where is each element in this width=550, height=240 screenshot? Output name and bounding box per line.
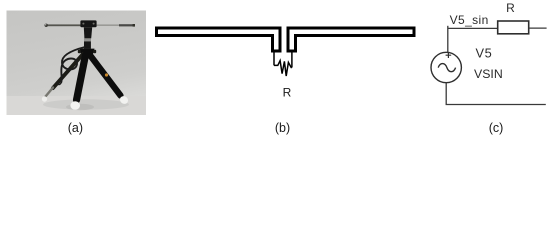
- coiled cable: [61, 47, 85, 83]
- dipole left arm: [157, 28, 281, 51]
- sine symbol: [438, 64, 455, 72]
- centre front leg: [77, 55, 86, 100]
- orange marking on right leg: [105, 73, 108, 76]
- rod tips: [45, 24, 48, 27]
- svg-text:V5: V5: [476, 46, 493, 61]
- tripod hub: [80, 49, 95, 55]
- wire: left feed drop: [273, 52, 275, 65]
- svg-text:V5_sin: V5_sin: [450, 13, 489, 27]
- antenna rod left half: [46, 24, 81, 26]
- svg-text:R: R: [283, 86, 292, 100]
- resistor R (box): [498, 21, 529, 34]
- grey adjuster ring: [84, 38, 91, 41]
- column: [84, 41, 91, 48]
- plus sign: [446, 52, 452, 58]
- svg-text:R: R: [506, 1, 515, 15]
- voltage source V5 circle: [431, 52, 461, 82]
- neck below block: [84, 27, 92, 38]
- left leg: [53, 54, 83, 88]
- table foreground lighter: [7, 96, 147, 115]
- wire: right feed drop: [291, 52, 293, 67]
- photo (a): antenna on tripod: [7, 11, 147, 116]
- wire: source bottom and ground rail: [446, 83, 546, 105]
- svg-text:(b): (b): [275, 121, 290, 135]
- svg-text:VSIN: VSIN: [474, 67, 503, 81]
- resistor R (feed-point zigzag): [274, 61, 292, 76]
- svg-text:(c): (c): [489, 121, 504, 135]
- shadow under tripod: [43, 99, 129, 109]
- antenna rod right half: [96, 24, 120, 26]
- feed block at rod centre: [80, 20, 96, 27]
- svg-text:(a): (a): [68, 121, 83, 135]
- right leg: [90, 55, 121, 96]
- wire: resistor to right edge: [529, 27, 547, 29]
- wire: top rail to resistor: [448, 27, 498, 29]
- dipole right arm: [288, 28, 414, 51]
- wire: node stub: [447, 26, 449, 53]
